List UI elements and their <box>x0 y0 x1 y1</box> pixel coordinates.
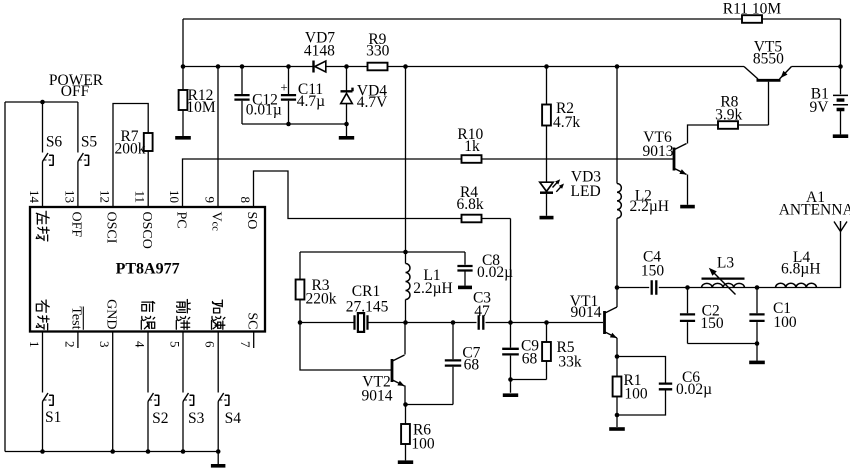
svg-text:+: + <box>280 80 287 95</box>
wire C12 leads <box>241 67 243 125</box>
wire pin 7 stub <box>253 332 255 349</box>
svg-text:0.01µ: 0.01µ <box>246 102 282 119</box>
capacitor C6 <box>659 369 712 398</box>
junction at 242,66.5 <box>240 64 245 69</box>
pin label 7 SC <box>244 312 259 329</box>
wire C4 line from VT1 collector <box>617 287 688 289</box>
wire SO pin 8 jog to R4 line <box>254 171 511 219</box>
wire capacitor ground link <box>242 123 347 125</box>
capacitor C3 <box>473 290 491 330</box>
svg-text:27.145: 27.145 <box>346 299 389 316</box>
pin number 9 <box>202 197 217 204</box>
capacitor C4 <box>641 249 665 295</box>
svg-text:4.7k: 4.7k <box>553 114 580 131</box>
wire R1 leads <box>616 357 618 428</box>
svg-text:PT8A977: PT8A977 <box>116 261 180 278</box>
svg-text:SO: SO <box>244 212 259 230</box>
wire S5 leads <box>77 102 79 207</box>
ground at main rail <box>211 464 226 468</box>
wire R6 leads <box>405 405 407 461</box>
wire S3 leads pin 5 <box>182 332 184 452</box>
svg-text:100: 100 <box>624 386 648 403</box>
junction at 687.5,287.5 <box>685 285 690 290</box>
svg-text:3: 3 <box>97 341 112 348</box>
junction at 112.7,451.5 <box>110 449 115 454</box>
switch S4 <box>218 393 241 427</box>
svg-text:4148: 4148 <box>304 42 335 59</box>
junction at 617,66.5 <box>615 64 620 69</box>
svg-text:Test: Test <box>69 306 84 329</box>
transistor VT5 pnp <box>744 39 792 81</box>
crystal CR1 <box>346 283 389 332</box>
pin label 8 SO <box>244 212 259 230</box>
wire pin 2 stub <box>77 332 79 349</box>
svg-text:6: 6 <box>203 341 218 348</box>
resistor R2 <box>542 100 580 131</box>
svg-text:8550: 8550 <box>753 51 784 68</box>
pin number 7 <box>238 341 253 348</box>
pin label 2 Test with overline <box>69 306 84 329</box>
LED VD3 <box>540 169 602 200</box>
ground at C8 <box>458 286 472 290</box>
junction at 510.5,379.5 <box>508 377 513 382</box>
junction at 405.5,252 <box>403 250 408 255</box>
wire oscillator base line <box>300 322 603 324</box>
wire battery negative to ground <box>840 111 842 135</box>
svg-text:13: 13 <box>62 190 77 203</box>
wire R4 drop to oscillator line and C9 <box>510 219 512 348</box>
svg-text:9014: 9014 <box>571 304 602 321</box>
junction at 42.5,102 <box>40 100 45 105</box>
svg-text:150: 150 <box>641 262 665 279</box>
svg-text:2.2µH: 2.2µH <box>629 198 669 215</box>
resistor R8 <box>715 93 742 129</box>
wire L2 branch <box>616 67 618 288</box>
resistor R11 <box>723 1 782 23</box>
svg-text:1: 1 <box>27 341 42 348</box>
wire C11 leads <box>288 67 290 125</box>
transistor VT1 <box>570 293 617 338</box>
capacitor C2 <box>680 302 724 332</box>
resistor R3 <box>296 277 337 308</box>
pin number 4 <box>132 341 147 348</box>
junction at 148,451.5 <box>146 449 151 454</box>
pin label 5 qianjin <box>176 300 190 330</box>
svg-text:47: 47 <box>474 303 490 320</box>
svg-text:68: 68 <box>522 351 538 368</box>
wire VT1 collector riser <box>616 288 618 308</box>
pin number 1 <box>27 341 42 348</box>
switch S1 <box>43 393 62 426</box>
pin number 5 <box>167 341 182 348</box>
svg-text:2.2µH: 2.2µH <box>413 280 453 297</box>
switch S6 <box>43 133 63 165</box>
junction at 617,287.5 <box>615 285 620 290</box>
svg-text:100: 100 <box>411 435 435 452</box>
junction at 405.5,404.5 <box>403 402 408 407</box>
capacitor C12 <box>234 91 281 118</box>
svg-text:OFF: OFF <box>61 83 90 100</box>
svg-text:OSCO: OSCO <box>139 212 154 249</box>
wire oscillator supply line <box>300 251 465 253</box>
svg-text:220k: 220k <box>306 291 337 308</box>
pin label 10 PC <box>174 212 189 229</box>
pin number 2 <box>62 341 77 348</box>
svg-text:7: 7 <box>238 341 253 348</box>
junction at 42.5,451.5 <box>40 449 45 454</box>
diode VD7 <box>304 29 335 72</box>
svg-text:S3: S3 <box>188 410 205 427</box>
pin number 14 <box>27 190 42 204</box>
svg-text:S6: S6 <box>46 133 63 150</box>
pin label 14 zuozhuan <box>36 211 49 241</box>
junction at 218.2,451.5 <box>216 449 221 454</box>
wire C1 leads <box>756 288 758 344</box>
switch S3 <box>183 393 205 427</box>
wire VT1 emitter drop <box>616 338 618 357</box>
svg-text:33k: 33k <box>558 354 582 371</box>
pin label 4 houtui <box>141 302 154 330</box>
wire GND pin 3 drop <box>112 332 114 452</box>
wire emitter to C7 link <box>406 367 454 405</box>
wire R8 to VT5 base <box>738 124 769 126</box>
wire tank bottom line <box>688 344 758 361</box>
wire C8 leads <box>464 252 466 286</box>
svg-text:1k: 1k <box>464 138 480 155</box>
inductor L3 adjustable <box>702 254 745 294</box>
junction at 546.5,66.5 <box>544 64 549 69</box>
ground at R1 C6 <box>609 427 625 431</box>
IC U1 PT8A977 body <box>30 207 265 332</box>
wire left common drop <box>4 102 6 452</box>
transistor VT2 <box>362 355 405 405</box>
svg-text:150: 150 <box>700 315 724 332</box>
svg-text:S2: S2 <box>152 410 168 427</box>
wire S4 leads pin 6 <box>217 332 219 452</box>
junction at 617,415 <box>615 413 620 418</box>
wire left vertical to bus at R12 <box>182 19 184 67</box>
pin label 1 youzhuan <box>36 300 49 330</box>
svg-text:GND: GND <box>103 299 118 329</box>
svg-text:Vcc: Vcc <box>209 212 224 232</box>
wire POWER OFF common <box>5 101 78 103</box>
wire bottom common rail <box>5 451 218 453</box>
wire battery branch from top rail <box>840 19 842 94</box>
pin number 12 <box>97 190 112 203</box>
svg-text:S5: S5 <box>81 133 98 150</box>
wire S1 leads pin 1 <box>42 332 44 452</box>
wire C6 loop <box>617 357 666 416</box>
ground at R12 <box>175 136 191 140</box>
svg-text:CR1: CR1 <box>352 283 380 300</box>
switch S2 <box>148 393 168 427</box>
ground at VD3 <box>540 216 554 220</box>
junction at 346.5,124 <box>344 122 349 127</box>
resistor R4 <box>456 184 483 223</box>
pin label 9 Vcc <box>209 212 224 232</box>
svg-text:9014: 9014 <box>362 388 393 405</box>
svg-text:S4: S4 <box>225 410 242 427</box>
wire PC pin 10 to R10 line <box>183 159 675 207</box>
capacitor C7 <box>445 345 481 374</box>
junction at 346.5,66.5 <box>344 64 349 69</box>
wire VT5 base drop <box>768 82 770 125</box>
junction at 546.5,322.5 <box>544 320 549 325</box>
svg-text:330: 330 <box>366 43 390 60</box>
pin number 13 <box>62 190 77 203</box>
svg-text:9V: 9V <box>810 99 830 116</box>
pin number 3 <box>97 341 112 348</box>
wire tank top line <box>688 287 758 289</box>
capacitor C8 <box>457 252 513 281</box>
junction at 300,322.5 <box>298 320 303 325</box>
transistor VT6 <box>643 129 687 175</box>
inductor L4 <box>776 249 821 288</box>
svg-text:10: 10 <box>167 190 182 203</box>
svg-text:8: 8 <box>238 197 253 204</box>
junction at 510.5,322.5 <box>508 320 513 325</box>
svg-text:0.02µ: 0.02µ <box>676 381 712 398</box>
svg-text:LED: LED <box>571 183 601 200</box>
svg-text:10M: 10M <box>186 99 216 116</box>
junction at 840.5,66.5 <box>838 64 843 69</box>
wire VT2 collector riser <box>404 323 406 355</box>
wire R3 leads <box>299 252 301 323</box>
ground at C9 R5 <box>503 393 518 397</box>
inductor L1 <box>406 264 453 300</box>
svg-text:4.7V: 4.7V <box>357 94 388 111</box>
svg-text:100: 100 <box>773 314 797 331</box>
junction at 453,322.5 <box>451 320 456 325</box>
resistor R5 <box>542 339 582 371</box>
wire C2 leads <box>687 288 689 344</box>
svg-text:6.8µH: 6.8µH <box>781 261 821 278</box>
wire C7 top lead <box>452 323 454 360</box>
wire VT2 base jog <box>300 323 392 371</box>
junction at 405.5,66.5 <box>403 64 408 69</box>
pin number 8 <box>238 197 253 204</box>
pin number 11 <box>133 190 148 203</box>
wire R2 leads <box>546 67 548 183</box>
switch S5 <box>78 133 98 165</box>
pin label 13 OFF <box>69 212 84 238</box>
wire top supply rail <box>183 18 841 20</box>
junction at 183,66.5 <box>181 64 186 69</box>
wire VT6 collector riser to R8 <box>688 125 719 144</box>
wire VT2 emitter drop <box>404 386 406 405</box>
ground at VT6 emitter <box>680 205 695 209</box>
capacitor C11 polarized <box>280 80 325 111</box>
zener diode VD4 <box>341 82 389 111</box>
wire R5 leads <box>546 323 548 380</box>
junction at 288.5,66.5 <box>286 64 291 69</box>
svg-text:2: 2 <box>62 341 77 348</box>
svg-text:9013: 9013 <box>643 143 674 160</box>
junction at 218,66.5 <box>216 64 221 69</box>
resistor R9 <box>366 31 390 70</box>
pin label 11 OSCO <box>139 212 154 249</box>
junction at 288.5,124 <box>286 122 291 127</box>
capacitor C9 <box>502 338 539 368</box>
svg-text:12: 12 <box>97 190 112 203</box>
capacitor C1 <box>749 300 796 331</box>
antenna A1 <box>779 189 850 232</box>
svg-text:14: 14 <box>27 190 42 204</box>
wire bus emitter section to battery <box>792 66 841 68</box>
svg-text:6.8k: 6.8k <box>456 196 483 213</box>
svg-text:5: 5 <box>167 341 182 348</box>
svg-text:9: 9 <box>202 197 217 204</box>
ground at VD4 filter <box>339 136 354 140</box>
svg-text:OSCI: OSCI <box>104 212 119 244</box>
svg-text:4.7µ: 4.7µ <box>297 93 325 110</box>
pin label 12 OSCI <box>104 212 119 244</box>
wire VD3 cathode to ground <box>546 194 548 216</box>
svg-text:68: 68 <box>464 356 480 373</box>
wire main Vcc bus <box>183 66 744 68</box>
ground at C1 tank <box>749 361 765 365</box>
pin label 3 GND <box>103 299 118 329</box>
wire S6 leads <box>42 102 44 207</box>
junction at 183,451.5 <box>181 449 186 454</box>
resistor R10 <box>457 126 483 163</box>
wire rail to main ground <box>217 452 219 465</box>
svg-text:4: 4 <box>132 341 147 348</box>
inductor L2 <box>617 184 669 219</box>
svg-text:L3: L3 <box>717 254 734 271</box>
battery B1 <box>810 86 848 117</box>
resistor R12 <box>179 87 216 116</box>
pin number 10 <box>167 190 182 203</box>
resistor R1 <box>613 372 648 403</box>
svg-text:R11 10M: R11 10M <box>723 1 782 18</box>
wire Vcc pin 9 riser <box>217 67 219 208</box>
wire R12 leads <box>182 67 184 137</box>
svg-text:3.9k: 3.9k <box>715 107 742 124</box>
ground at battery B1 <box>833 134 848 138</box>
wire bus to L1 feed <box>405 67 407 264</box>
svg-text:0.02µ: 0.02µ <box>477 264 513 281</box>
junction at 405.5,322.5 <box>403 320 408 325</box>
ground at R6 <box>398 460 413 464</box>
resistor R7 <box>115 128 153 158</box>
wire S2 leads pin 4 <box>147 332 149 452</box>
wire VT6 emitter to ground <box>687 175 689 205</box>
svg-text:200k: 200k <box>115 141 146 158</box>
pin label 6 jiasu <box>212 300 225 329</box>
svg-text:SC: SC <box>244 312 259 329</box>
wire R7 loop pins 12-11 <box>113 104 148 208</box>
junction at 617,356.5 <box>615 354 620 359</box>
wire L4 line to antenna <box>757 232 841 288</box>
svg-text:ANTENNA: ANTENNA <box>779 202 850 219</box>
wire VD4 leads <box>346 67 348 137</box>
wire C9 bottom to ground and R5 <box>511 356 547 393</box>
label POWER OFF <box>49 72 104 100</box>
svg-text:S1: S1 <box>45 409 61 426</box>
svg-text:PC: PC <box>174 212 189 229</box>
svg-text:11: 11 <box>133 190 148 203</box>
svg-text:OFF: OFF <box>69 212 84 238</box>
wire L1 bottom lead <box>405 300 407 323</box>
resistor R6 <box>401 422 435 453</box>
pin number 6 <box>203 341 218 348</box>
junction at 757,343.5 <box>755 341 760 346</box>
junction at 757,287.5 <box>755 285 760 290</box>
